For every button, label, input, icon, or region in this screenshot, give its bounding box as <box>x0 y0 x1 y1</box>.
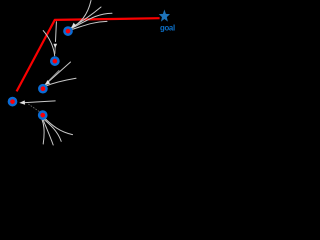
node N4 <box>9 98 16 105</box>
node N2 incoming strokes <box>43 22 56 56</box>
arrow into node N4 (left) <box>19 100 25 104</box>
node N5 faint incoming <box>28 104 41 113</box>
node N4 incoming horizontal line <box>25 101 55 103</box>
arrow into node N1 <box>71 23 76 28</box>
node N5 <box>39 112 46 119</box>
node N1 fan curves (gray motion primitives) <box>70 1 113 31</box>
node N3 fan + arrow shaft <box>45 62 77 87</box>
goal star <box>159 10 170 22</box>
arrow into node N2 (down) <box>53 44 57 49</box>
node N1 <box>64 28 71 35</box>
node N3 <box>39 85 46 92</box>
svg-text:goal: goal <box>160 23 175 32</box>
node N5 fan curves <box>42 118 73 146</box>
arrow into node N3 <box>45 80 50 85</box>
wire red solution path <box>17 18 160 91</box>
node N2 <box>51 58 58 65</box>
